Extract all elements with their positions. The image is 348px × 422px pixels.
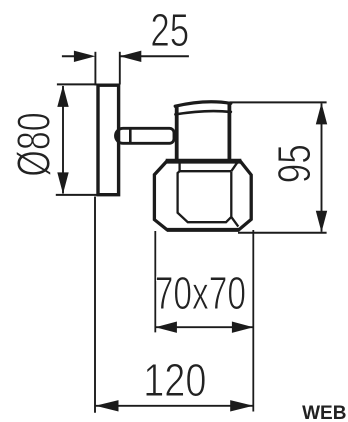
stem cap seam arc xyxy=(175,111,231,114)
head bottom edge xyxy=(167,228,239,232)
head front face top-right connector xyxy=(231,163,237,172)
dim Ø80: bottom extension line xyxy=(56,194,97,196)
stem right edge xyxy=(227,104,231,161)
head top edge xyxy=(166,159,242,164)
dim 70x70: dimension line xyxy=(155,326,253,328)
head front face top edge xyxy=(180,163,232,172)
shared right extension line xyxy=(252,230,254,412)
dim Ø80: top extension line xyxy=(57,83,97,85)
arm xyxy=(116,128,174,143)
svg-text:70x70: 70x70 xyxy=(155,266,246,319)
dim 95: down arrow xyxy=(316,211,327,233)
dim 95: dimension line xyxy=(321,103,323,231)
head outer octagon xyxy=(154,161,251,230)
dim 70x70: left arrow xyxy=(155,322,177,333)
dim 120: left extension line xyxy=(94,197,96,413)
dim 25: right arrow xyxy=(120,51,142,62)
svg-text:25: 25 xyxy=(150,4,189,56)
dim 120: right arrow xyxy=(230,400,253,411)
wall plate xyxy=(98,85,119,195)
head front face bottom-right connector xyxy=(231,217,238,227)
dim 120: left arrow xyxy=(95,400,118,411)
dim 25: extension line right xyxy=(119,52,121,85)
dim 25: right tail xyxy=(120,55,189,57)
svg-text:95: 95 xyxy=(268,144,320,183)
dim Ø80: dimension line xyxy=(62,86,64,194)
dim 70x70: left extension line xyxy=(154,231,156,332)
dim Ø80: down arrow xyxy=(57,172,68,194)
stem left edge xyxy=(175,106,179,162)
dim 95: bottom extension line xyxy=(238,232,327,234)
svg-text:WEB: WEB xyxy=(302,403,346,422)
dim 25: left tail xyxy=(62,55,78,57)
dim 95: top extension line xyxy=(230,101,327,103)
arm joint line xyxy=(129,129,132,143)
stem cap top arc xyxy=(175,102,231,106)
svg-text:120: 120 xyxy=(143,354,206,406)
dim 70x70: right arrow xyxy=(232,322,254,333)
svg-text:Ø80: Ø80 xyxy=(7,112,60,176)
dim Ø80: up arrow xyxy=(57,85,68,107)
dim 95: up arrow xyxy=(316,103,327,125)
dim 120: dimension line xyxy=(95,405,253,407)
dim 25: left arrow xyxy=(74,51,96,62)
dim 25: extension line left xyxy=(94,52,96,86)
head front face left and bottom xyxy=(178,171,232,222)
